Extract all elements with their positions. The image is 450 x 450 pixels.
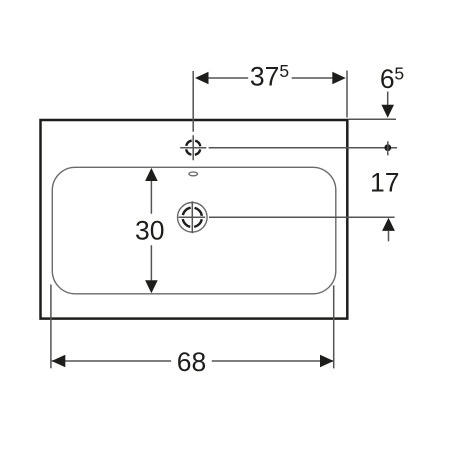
dimension 6.5: down arrowhead bbox=[381, 105, 394, 118]
tap hole vertical centerline / extension line for 37.5 bbox=[192, 71, 194, 160]
svg-text:5: 5 bbox=[279, 61, 289, 81]
dimension 68: right arrowhead bbox=[320, 355, 334, 368]
svg-text:37: 37 bbox=[250, 61, 279, 91]
wire: long reference line from drain to right margin bbox=[209, 216, 395, 218]
dimension 68: left extension line bbox=[50, 285, 52, 369]
drain vertical centerline bbox=[191, 201, 193, 233]
svg-text:6: 6 bbox=[380, 64, 395, 94]
dimension 37.5: right extension line bbox=[346, 71, 348, 118]
dot marker vertical tick bbox=[387, 141, 389, 155]
dimension 37.5: dimension line bbox=[208, 77, 332, 79]
dimension 6.5: leader line bbox=[387, 92, 389, 106]
tap hole horizontal centerline bbox=[180, 147, 206, 149]
dimension 30: top arrowhead bbox=[145, 168, 158, 181]
dimension 68: dimension line bbox=[52, 360, 334, 362]
svg-text:17: 17 bbox=[370, 168, 399, 198]
dimension 30: dimension line bbox=[150, 181, 152, 280]
svg-text:68: 68 bbox=[177, 347, 206, 377]
basin (inner rounded rectangle) bbox=[52, 167, 336, 293]
wire: long reference line from tap hole to right margin bbox=[209, 147, 397, 149]
svg-text:30: 30 bbox=[135, 215, 164, 245]
drain inner circle bbox=[183, 208, 202, 227]
dimension 30: bottom arrowhead bbox=[145, 280, 158, 293]
overflow slot bbox=[189, 172, 198, 176]
wire: top edge extension line to right margin bbox=[349, 118, 397, 120]
dimension 68: left arrowhead bbox=[52, 355, 66, 368]
dimension 37.5: right arrowhead bbox=[332, 72, 346, 84]
tap hole circle bbox=[186, 140, 201, 155]
dimension 68: right extension line bbox=[333, 285, 335, 368]
svg-text:5: 5 bbox=[394, 64, 404, 84]
dimension 17: arrow tail bbox=[388, 231, 390, 241]
dimension 37.5: left arrowhead bbox=[195, 72, 209, 84]
drain horizontal centerline bbox=[179, 216, 206, 218]
drain outer circle bbox=[178, 203, 208, 233]
dimension 17: up arrowhead on drain axis bbox=[382, 218, 395, 231]
ceramic outline (outer rectangle of washbasin) bbox=[41, 120, 348, 319]
dimension 6.5 / 17: dot marker on tap axis bbox=[384, 144, 391, 151]
